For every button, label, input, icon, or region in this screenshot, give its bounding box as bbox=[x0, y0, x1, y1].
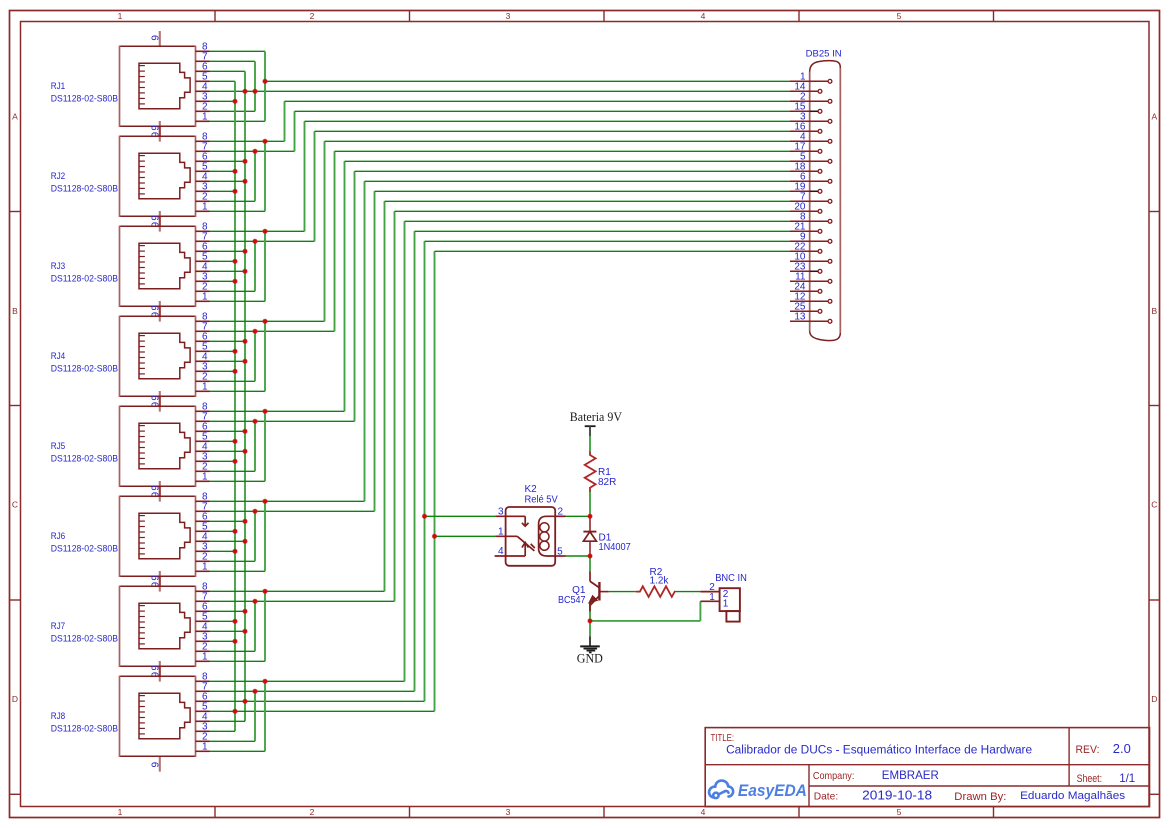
RJ3 pin 2 bbox=[196, 290, 210, 292]
connector RJ2 DS1128-02-S80B body bbox=[120, 136, 196, 217]
junction bbox=[422, 514, 426, 518]
svg-text:1: 1 bbox=[202, 562, 208, 573]
RJ2 shield pin 9 bottom stub bbox=[159, 216, 161, 231]
svg-text:Eduardo Magalhães: Eduardo Magalhães bbox=[1020, 790, 1126, 802]
ground symbol GND bbox=[580, 636, 600, 652]
wire bbox=[385, 200, 791, 202]
DB25 pin 10 bbox=[790, 260, 828, 262]
wire bbox=[566, 555, 591, 557]
wire bbox=[210, 520, 246, 522]
svg-text:9: 9 bbox=[151, 125, 162, 131]
wire bbox=[210, 230, 305, 232]
svg-text:2: 2 bbox=[558, 507, 564, 518]
relay K2 contact arrow up bbox=[524, 544, 526, 556]
svg-text:9: 9 bbox=[151, 485, 162, 491]
RJ2 pin 3 bbox=[196, 190, 210, 192]
wire bbox=[294, 111, 296, 151]
relay K2 coil bbox=[539, 516, 556, 556]
DB25 pin 18 bbox=[790, 170, 818, 172]
wire bbox=[210, 460, 236, 462]
svg-text:13: 13 bbox=[794, 312, 806, 323]
svg-text:1: 1 bbox=[202, 742, 208, 753]
frame row ticks left bbox=[10, 211, 21, 213]
RJ8 pin 6 bbox=[196, 700, 210, 702]
EasyEDA logo cloud icon bbox=[709, 781, 733, 799]
svg-text:EMBRAER: EMBRAER bbox=[882, 768, 939, 782]
RJ7 pin 1 bbox=[196, 660, 210, 662]
RJ5 shield pin 9 top stub bbox=[159, 391, 161, 406]
svg-text:DS1128-02-S80B: DS1128-02-S80B bbox=[51, 363, 118, 373]
RJ8 pin 7 bbox=[196, 690, 210, 692]
DB25 pin 6 bbox=[790, 180, 828, 182]
wire bbox=[699, 601, 701, 621]
RJ6 pin 3 bbox=[196, 550, 210, 552]
svg-text:Company:: Company: bbox=[813, 770, 855, 782]
svg-text:1: 1 bbox=[723, 599, 729, 610]
wire bbox=[210, 210, 266, 212]
RJ1 pin 8 bbox=[196, 50, 210, 52]
wire bbox=[210, 500, 365, 502]
transistor Q1 BC547 bbox=[589, 572, 608, 612]
svg-text:9: 9 bbox=[151, 395, 162, 401]
wire bbox=[264, 321, 266, 391]
wire bbox=[285, 100, 791, 102]
DB25 pin 19 black wire stub bbox=[810, 190, 818, 192]
svg-text:C: C bbox=[12, 499, 18, 509]
junction bbox=[588, 619, 592, 623]
svg-text:BC547: BC547 bbox=[558, 595, 586, 606]
junction bbox=[233, 259, 237, 263]
RJ1 pin 1 bbox=[196, 120, 210, 122]
RJ8 pin 4 bbox=[196, 720, 210, 722]
relay K2 body bbox=[506, 507, 556, 566]
svg-text:1: 1 bbox=[202, 202, 208, 213]
svg-text:5: 5 bbox=[897, 11, 902, 21]
wire bbox=[210, 410, 345, 412]
wire bbox=[384, 201, 386, 591]
wire bbox=[210, 600, 395, 602]
RJ6 pin 5 bbox=[196, 530, 210, 532]
junction bbox=[233, 529, 237, 533]
junction bbox=[263, 139, 267, 143]
wire bbox=[210, 170, 236, 172]
wire bbox=[305, 120, 791, 122]
junction bbox=[243, 429, 247, 433]
wire bbox=[210, 140, 285, 142]
RJ6 pin 1 bbox=[196, 570, 210, 572]
wire bbox=[314, 131, 316, 241]
DB25 pin 23 bbox=[790, 270, 818, 272]
wire bbox=[210, 270, 246, 272]
junction bbox=[233, 439, 237, 443]
junction bbox=[253, 599, 257, 603]
wire bbox=[210, 320, 325, 322]
junction bbox=[253, 89, 257, 93]
svg-text:RJ5: RJ5 bbox=[51, 441, 65, 451]
junction bbox=[432, 534, 436, 538]
RJ1 shield pin 9 top stub bbox=[159, 31, 161, 46]
wire bbox=[210, 290, 256, 292]
junction bbox=[243, 519, 247, 523]
junction bbox=[263, 499, 267, 503]
RJ8 pin 3 bbox=[196, 730, 210, 732]
junction bbox=[233, 99, 237, 103]
svg-text:2.0: 2.0 bbox=[1113, 742, 1131, 756]
RJ2 pin 8 bbox=[196, 140, 210, 142]
svg-text:DS1128-02-S80B: DS1128-02-S80B bbox=[51, 273, 118, 283]
wire bbox=[566, 515, 591, 517]
svg-text:DS1128-02-S80B: DS1128-02-S80B bbox=[51, 633, 118, 643]
wire bbox=[210, 110, 256, 112]
RJ3 pin 6 bbox=[196, 250, 210, 252]
junction bbox=[263, 319, 267, 323]
DB25 pin 15 black wire stub bbox=[810, 110, 818, 112]
svg-text:3: 3 bbox=[506, 807, 511, 817]
wire bbox=[210, 100, 236, 102]
wire bbox=[210, 70, 246, 72]
wire bbox=[210, 260, 236, 262]
RJ4 pin 8 bbox=[196, 320, 210, 322]
RJ2 pin 6 bbox=[196, 160, 210, 162]
wire bbox=[210, 510, 375, 512]
svg-text:DS1128-02-S80B: DS1128-02-S80B bbox=[51, 183, 118, 193]
svg-text:1: 1 bbox=[498, 527, 504, 538]
junction bbox=[243, 159, 247, 163]
junction bbox=[233, 709, 237, 713]
wire bbox=[264, 681, 266, 751]
resistor R1 82R bbox=[585, 452, 596, 493]
RJ4 pin 3 bbox=[196, 370, 210, 372]
svg-text:9: 9 bbox=[151, 665, 162, 671]
wire bbox=[675, 591, 700, 593]
relay K2 pin 3 bbox=[495, 515, 525, 517]
RJ6 pin 4 bbox=[196, 540, 210, 542]
wire bbox=[589, 602, 591, 636]
wire bbox=[210, 180, 246, 182]
junction bbox=[253, 329, 257, 333]
wire bbox=[210, 750, 266, 752]
RJ1 pin 7 bbox=[196, 60, 210, 62]
svg-text:RJ4: RJ4 bbox=[51, 351, 65, 361]
wire bbox=[435, 535, 496, 537]
DB25 pin 3 bbox=[790, 120, 828, 122]
RJ1 shield pin 9 bottom stub bbox=[159, 126, 161, 141]
junction bbox=[253, 239, 257, 243]
DB25 pin 11 bbox=[790, 280, 828, 282]
svg-text:1: 1 bbox=[202, 292, 208, 303]
DB25 pin 5 bbox=[790, 160, 828, 162]
wire bbox=[210, 190, 236, 192]
net label stub bbox=[589, 426, 591, 436]
RJ4 pin 6 bbox=[196, 340, 210, 342]
RJ8 pin 2 bbox=[196, 740, 210, 742]
RJ1 pin 6 bbox=[196, 70, 210, 72]
connector RJ7 DS1128-02-S80B body bbox=[120, 586, 196, 667]
svg-text:Date:: Date: bbox=[814, 791, 839, 803]
svg-text:3: 3 bbox=[498, 507, 504, 518]
svg-text:4: 4 bbox=[701, 807, 706, 817]
RJ4 pin 5 bbox=[196, 350, 210, 352]
wire bbox=[210, 730, 236, 732]
RJ6 pin 2 bbox=[196, 560, 210, 562]
wire bbox=[425, 240, 791, 242]
wire bbox=[254, 601, 256, 651]
RJ5 pin 1 bbox=[196, 480, 210, 482]
svg-text:B: B bbox=[12, 306, 18, 316]
svg-text:D: D bbox=[1151, 694, 1157, 704]
DB25 pin 19 bbox=[790, 190, 818, 192]
svg-text:Relé 5V: Relé 5V bbox=[525, 494, 559, 505]
wire bbox=[265, 80, 790, 82]
wire bbox=[210, 570, 266, 572]
RJ8 pin 1 bbox=[196, 750, 210, 752]
wire bbox=[355, 170, 791, 172]
wire bbox=[210, 200, 256, 202]
RJ7 pin 8 bbox=[196, 590, 210, 592]
svg-text:DS1128-02-S80B: DS1128-02-S80B bbox=[51, 93, 118, 103]
junction bbox=[243, 539, 247, 543]
junction bbox=[233, 639, 237, 643]
wire bbox=[210, 90, 791, 92]
wire bbox=[210, 740, 256, 742]
wire bbox=[375, 190, 791, 192]
wire bbox=[404, 221, 406, 681]
RJ2 pin 5 bbox=[196, 170, 210, 172]
RJ7 shield pin 9 top stub bbox=[159, 571, 161, 586]
svg-text:1.2k: 1.2k bbox=[650, 575, 670, 586]
RJ8 pin 5 bbox=[196, 710, 210, 712]
wire bbox=[254, 61, 256, 111]
wire bbox=[254, 241, 256, 291]
BNC pin 2 bbox=[700, 591, 719, 593]
wire bbox=[284, 101, 286, 141]
RJ3 pin 1 bbox=[196, 300, 210, 302]
wire bbox=[210, 330, 335, 332]
svg-text:4: 4 bbox=[498, 546, 504, 557]
wire bbox=[210, 640, 236, 642]
wire bbox=[254, 151, 256, 201]
svg-text:9: 9 bbox=[151, 305, 162, 311]
DB25 pin 22 bbox=[790, 250, 818, 252]
wire bbox=[424, 241, 426, 701]
junction bbox=[243, 89, 247, 93]
wire bbox=[210, 470, 256, 472]
svg-text:82R: 82R bbox=[598, 477, 616, 488]
DB25 pin 14 bbox=[790, 90, 818, 92]
RJ6 pin 6 bbox=[196, 520, 210, 522]
svg-text:Bateria 9V: Bateria 9V bbox=[570, 410, 622, 424]
svg-text:DS1128-02-S80B: DS1128-02-S80B bbox=[51, 543, 118, 553]
junction bbox=[243, 699, 247, 703]
svg-text:9: 9 bbox=[151, 35, 162, 41]
svg-text:A: A bbox=[12, 112, 18, 122]
wire bbox=[325, 140, 791, 142]
wire bbox=[210, 560, 256, 562]
RJ6 shield pin 9 top stub bbox=[159, 481, 161, 496]
wire bbox=[210, 550, 236, 552]
junction bbox=[588, 514, 592, 518]
svg-text:Drawn By:: Drawn By: bbox=[954, 791, 1006, 803]
svg-text:Calibrador de DUCs - Esquemáti: Calibrador de DUCs - Esquemático Interfa… bbox=[726, 744, 1032, 756]
RJ7 pin 3 bbox=[196, 640, 210, 642]
resistor R2 1.2k bbox=[636, 586, 675, 597]
svg-text:C: C bbox=[1151, 499, 1157, 509]
RJ3 shield pin 9 bottom stub bbox=[159, 306, 161, 321]
svg-text:RJ7: RJ7 bbox=[51, 621, 65, 631]
svg-text:Sheet:: Sheet: bbox=[1077, 773, 1103, 785]
svg-text:A: A bbox=[1151, 112, 1157, 122]
DB25 pin 13 bbox=[790, 320, 828, 322]
junction bbox=[263, 409, 267, 413]
junction bbox=[243, 609, 247, 613]
junction bbox=[233, 619, 237, 623]
svg-text:9: 9 bbox=[151, 215, 162, 221]
junction bbox=[243, 449, 247, 453]
wire bbox=[234, 81, 236, 731]
RJ7 shield pin 9 bottom stub bbox=[159, 666, 161, 681]
connector RJ6 DS1128-02-S80B body bbox=[120, 496, 196, 577]
svg-text:1: 1 bbox=[202, 652, 208, 663]
wire bbox=[254, 691, 256, 741]
DB25 pin 1 bbox=[790, 80, 828, 82]
DB25 pin 16 bbox=[790, 130, 818, 132]
RJ3 pin 3 bbox=[196, 280, 210, 282]
svg-text:1/1: 1/1 bbox=[1119, 771, 1135, 785]
RJ5 pin 4 bbox=[196, 450, 210, 452]
svg-text:EasyEDA: EasyEDA bbox=[738, 782, 807, 800]
svg-text:RJ6: RJ6 bbox=[51, 531, 65, 541]
RJ4 shield pin 9 top stub bbox=[159, 301, 161, 316]
wire bbox=[589, 436, 591, 452]
wire bbox=[435, 250, 791, 252]
svg-text:1: 1 bbox=[118, 807, 123, 817]
connector DB25 IN shell bbox=[810, 61, 841, 341]
svg-text:9: 9 bbox=[151, 575, 162, 581]
svg-text:B: B bbox=[1151, 306, 1157, 316]
wire bbox=[210, 250, 246, 252]
svg-text:GND: GND bbox=[577, 652, 603, 666]
DB25 pin 23 black wire stub bbox=[810, 270, 818, 272]
wire bbox=[210, 710, 435, 712]
svg-text:RJ3: RJ3 bbox=[51, 261, 65, 271]
DB25 pin 15 bbox=[790, 110, 818, 112]
net label bar bbox=[585, 425, 596, 427]
wire bbox=[210, 340, 246, 342]
svg-text:1: 1 bbox=[202, 112, 208, 123]
svg-text:RJ1: RJ1 bbox=[51, 81, 65, 91]
RJ7 pin 2 bbox=[196, 650, 210, 652]
wire bbox=[210, 620, 236, 622]
RJ8 shield pin 9 bottom stub bbox=[159, 756, 161, 771]
svg-text:5: 5 bbox=[557, 546, 563, 557]
wire bbox=[244, 71, 246, 721]
svg-text:RJ2: RJ2 bbox=[51, 171, 65, 181]
connector RJ3 DS1128-02-S80B body bbox=[120, 226, 196, 307]
junction bbox=[243, 339, 247, 343]
RJ2 pin 1 bbox=[196, 210, 210, 212]
wire bbox=[254, 421, 256, 471]
wire bbox=[395, 210, 791, 212]
connector RJ4 DS1128-02-S80B body bbox=[120, 316, 196, 397]
wire bbox=[364, 181, 366, 501]
svg-text:1: 1 bbox=[202, 382, 208, 393]
svg-text:2019-10-18: 2019-10-18 bbox=[862, 788, 932, 803]
wire bbox=[405, 220, 791, 222]
svg-text:REV:: REV: bbox=[1076, 744, 1100, 756]
wire bbox=[210, 440, 236, 442]
junction bbox=[243, 179, 247, 183]
RJ1 pin 4 bbox=[196, 90, 210, 92]
junction bbox=[263, 589, 267, 593]
wire bbox=[210, 590, 385, 592]
wire bbox=[315, 130, 791, 132]
wire bbox=[210, 480, 266, 482]
RJ8 pin 8 bbox=[196, 680, 210, 682]
wire bbox=[589, 556, 591, 572]
wire bbox=[295, 110, 791, 112]
diode D1 1N4007 bbox=[583, 516, 596, 556]
DB25 pin 4 bbox=[790, 140, 828, 142]
wire bbox=[210, 660, 266, 662]
wire bbox=[210, 450, 246, 452]
junction bbox=[263, 679, 267, 683]
junction bbox=[243, 629, 247, 633]
RJ6 pin 8 bbox=[196, 500, 210, 502]
wire bbox=[210, 720, 246, 722]
RJ3 pin 7 bbox=[196, 240, 210, 242]
RJ1 pin 2 bbox=[196, 110, 210, 112]
wire bbox=[609, 591, 636, 593]
RJ3 pin 5 bbox=[196, 260, 210, 262]
wire bbox=[210, 280, 236, 282]
RJ6 shield pin 9 bottom stub bbox=[159, 576, 161, 591]
svg-text:RJ8: RJ8 bbox=[51, 711, 65, 721]
RJ5 pin 2 bbox=[196, 470, 210, 472]
wire bbox=[254, 331, 256, 381]
junction bbox=[233, 169, 237, 173]
RJ7 pin 7 bbox=[196, 600, 210, 602]
wire bbox=[344, 161, 346, 411]
RJ2 shield pin 9 top stub bbox=[159, 121, 161, 136]
wire bbox=[210, 150, 295, 152]
wire bbox=[210, 540, 246, 542]
svg-text:9: 9 bbox=[151, 761, 162, 767]
relay K2 switch blade bbox=[517, 536, 534, 551]
RJ4 pin 1 bbox=[196, 390, 210, 392]
wire bbox=[210, 700, 425, 702]
RJ3 pin 8 bbox=[196, 230, 210, 232]
DB25 pin 2 bbox=[790, 100, 828, 102]
RJ6 pin 7 bbox=[196, 510, 210, 512]
wire bbox=[210, 80, 236, 82]
svg-text:5: 5 bbox=[897, 807, 902, 817]
wire bbox=[365, 180, 791, 182]
wire bbox=[434, 251, 436, 711]
wire bbox=[394, 211, 396, 601]
svg-text:1: 1 bbox=[709, 592, 715, 603]
junction bbox=[588, 554, 592, 558]
wire bbox=[425, 515, 496, 517]
wire bbox=[210, 690, 415, 692]
junction bbox=[263, 79, 267, 83]
junction bbox=[253, 689, 257, 693]
DB25 pin 24 bbox=[790, 290, 818, 292]
svg-text:DS1128-02-S80B: DS1128-02-S80B bbox=[51, 723, 118, 733]
junction bbox=[253, 419, 257, 423]
junction bbox=[253, 149, 257, 153]
DB25 pin 20 bbox=[790, 210, 818, 212]
RJ7 pin 6 bbox=[196, 610, 210, 612]
